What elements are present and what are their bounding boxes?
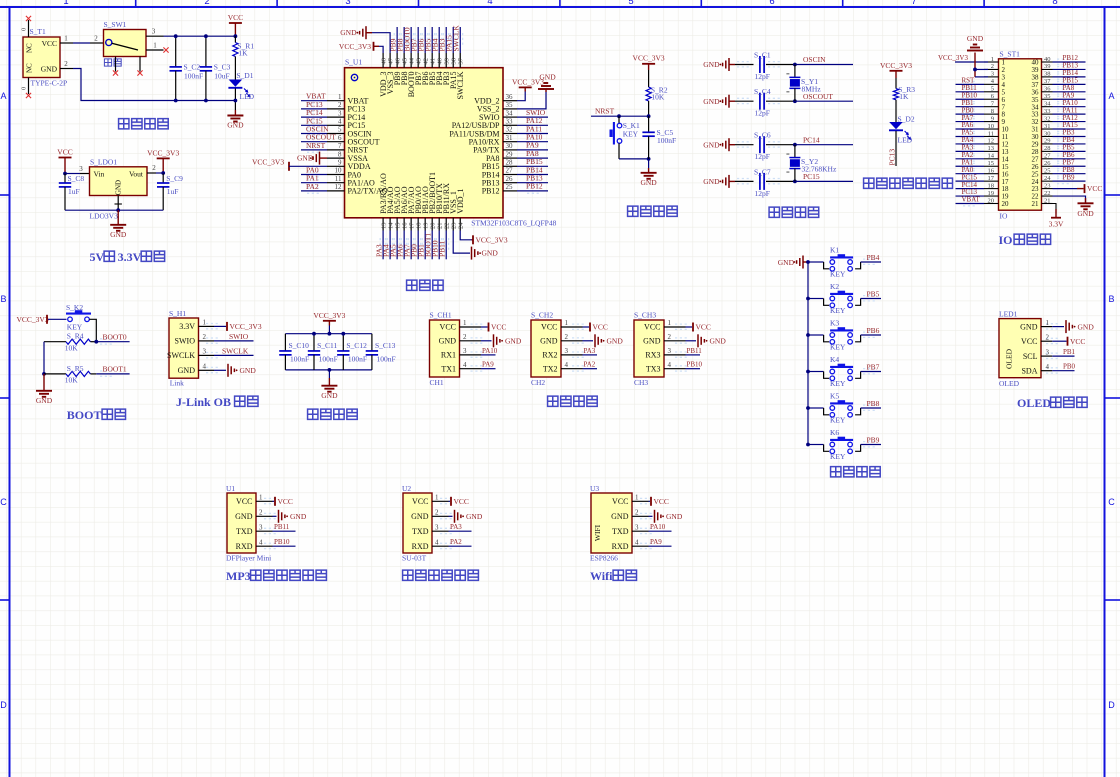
svg-text:12: 12 bbox=[335, 183, 343, 191]
svg-text:NRST: NRST bbox=[306, 141, 326, 150]
svg-text:VCC: VCC bbox=[42, 39, 57, 48]
svg-text:GND: GND bbox=[703, 97, 720, 106]
svg-text:11: 11 bbox=[335, 175, 342, 183]
svg-text:GND: GND bbox=[466, 512, 483, 521]
svg-text:S_C7: S_C7 bbox=[754, 167, 771, 176]
svg-text:1K: 1K bbox=[899, 92, 909, 101]
svg-text:K5: K5 bbox=[830, 392, 839, 401]
svg-text:33: 33 bbox=[1044, 108, 1051, 115]
svg-text:Vout: Vout bbox=[129, 170, 144, 179]
svg-text:25: 25 bbox=[1044, 168, 1051, 175]
svg-text:MP3: MP3 bbox=[226, 569, 251, 583]
svg-text:GND: GND bbox=[439, 337, 457, 346]
svg-text:S_C4: S_C4 bbox=[754, 87, 771, 96]
svg-text:S_U1: S_U1 bbox=[345, 58, 362, 67]
svg-text:VCC_3V3: VCC_3V3 bbox=[230, 322, 262, 331]
svg-text:RX2: RX2 bbox=[542, 351, 557, 360]
svg-text:10uF: 10uF bbox=[214, 72, 229, 81]
svg-text:1: 1 bbox=[338, 93, 342, 101]
svg-text:13: 13 bbox=[380, 223, 387, 230]
svg-text:2: 2 bbox=[565, 333, 569, 341]
svg-text:13: 13 bbox=[988, 145, 995, 152]
svg-text:18: 18 bbox=[988, 182, 995, 189]
svg-text:4: 4 bbox=[259, 538, 263, 546]
svg-text:S_C11: S_C11 bbox=[317, 341, 337, 350]
svg-text:4: 4 bbox=[203, 363, 207, 371]
svg-text:41: 41 bbox=[429, 58, 436, 65]
svg-text:24: 24 bbox=[1044, 175, 1051, 182]
svg-text:VCC: VCC bbox=[440, 323, 456, 332]
svg-text:PB12: PB12 bbox=[526, 182, 543, 191]
svg-text:28: 28 bbox=[1044, 145, 1051, 152]
svg-text:5V: 5V bbox=[90, 250, 105, 264]
svg-text:GND: GND bbox=[640, 178, 657, 187]
svg-text:1uF: 1uF bbox=[167, 187, 179, 196]
svg-text:DFPlayer Mini: DFPlayer Mini bbox=[226, 554, 271, 563]
svg-text:GND: GND bbox=[340, 28, 357, 37]
svg-text:LED1: LED1 bbox=[999, 309, 1018, 318]
svg-text:1uF: 1uF bbox=[68, 187, 80, 196]
svg-text:B: B bbox=[1108, 294, 1114, 304]
svg-text:3: 3 bbox=[152, 28, 156, 36]
svg-text:PA3: PA3 bbox=[450, 523, 462, 531]
svg-text:STM32F103C8T6_LQFP48: STM32F103C8T6_LQFP48 bbox=[471, 219, 556, 228]
svg-text:LDO3V3: LDO3V3 bbox=[90, 212, 119, 221]
svg-text:21: 21 bbox=[1032, 200, 1040, 208]
svg-text:12pF: 12pF bbox=[755, 109, 770, 118]
svg-text:VCC: VCC bbox=[236, 497, 252, 506]
svg-text:TX3: TX3 bbox=[646, 364, 661, 373]
svg-text:12pF: 12pF bbox=[755, 72, 770, 81]
svg-text:PC13: PC13 bbox=[887, 149, 896, 166]
svg-text:37: 37 bbox=[458, 57, 465, 64]
svg-text:GND: GND bbox=[643, 337, 661, 346]
svg-text:GND: GND bbox=[1077, 209, 1094, 218]
svg-text:22: 22 bbox=[1044, 190, 1051, 197]
svg-text:PB6: PB6 bbox=[867, 326, 880, 335]
svg-text:PB12: PB12 bbox=[482, 187, 500, 196]
svg-text:4: 4 bbox=[565, 361, 569, 369]
svg-text:SWCLK: SWCLK bbox=[456, 71, 465, 99]
svg-text:S_CH2: S_CH2 bbox=[531, 311, 553, 320]
svg-text:100nF: 100nF bbox=[377, 355, 396, 364]
svg-text:39: 39 bbox=[1044, 63, 1051, 70]
svg-text:K3: K3 bbox=[830, 319, 839, 328]
svg-text:VCC_3V3: VCC_3V3 bbox=[252, 157, 284, 166]
svg-text:WIFI: WIFI bbox=[593, 524, 602, 541]
svg-text:16: 16 bbox=[401, 222, 408, 229]
svg-text:4: 4 bbox=[435, 538, 439, 546]
svg-text:PA3: PA3 bbox=[584, 347, 596, 355]
svg-text:14: 14 bbox=[387, 222, 394, 229]
svg-text:S_C3: S_C3 bbox=[214, 63, 231, 72]
svg-text:10K: 10K bbox=[65, 376, 79, 385]
svg-text:3: 3 bbox=[991, 71, 994, 78]
svg-text:TXD: TXD bbox=[236, 527, 253, 536]
svg-text:C: C bbox=[0, 497, 7, 507]
svg-text:23: 23 bbox=[1044, 182, 1051, 189]
svg-text:KEY: KEY bbox=[830, 452, 846, 461]
svg-text:PB1: PB1 bbox=[1063, 348, 1076, 356]
svg-text:PA9: PA9 bbox=[482, 361, 494, 369]
svg-text:12pF: 12pF bbox=[755, 152, 770, 161]
svg-text:3: 3 bbox=[79, 165, 83, 173]
svg-text:S_C2: S_C2 bbox=[184, 63, 201, 72]
svg-text:KEY: KEY bbox=[830, 306, 846, 315]
svg-text:2: 2 bbox=[259, 509, 263, 517]
svg-text:40: 40 bbox=[1044, 56, 1051, 63]
svg-text:OLED: OLED bbox=[1005, 348, 1014, 369]
svg-text:26: 26 bbox=[506, 175, 514, 183]
svg-text:OSCIN: OSCIN bbox=[803, 55, 826, 64]
svg-text:15: 15 bbox=[988, 160, 995, 167]
svg-text:34: 34 bbox=[1044, 100, 1051, 107]
svg-text:2: 2 bbox=[435, 509, 439, 517]
svg-text:PA2: PA2 bbox=[450, 538, 462, 546]
svg-text:27: 27 bbox=[506, 167, 514, 175]
svg-text:GND: GND bbox=[321, 391, 338, 400]
svg-text:S_C1: S_C1 bbox=[754, 51, 771, 60]
svg-text:SDA: SDA bbox=[1021, 366, 1037, 375]
svg-text:7: 7 bbox=[911, 0, 916, 7]
svg-text:35: 35 bbox=[1044, 93, 1051, 100]
svg-text:1: 1 bbox=[259, 494, 263, 502]
svg-text:GND: GND bbox=[115, 180, 123, 195]
svg-text:PB11: PB11 bbox=[687, 347, 703, 355]
svg-text:100nF: 100nF bbox=[348, 355, 367, 364]
svg-text:2: 2 bbox=[991, 63, 994, 70]
svg-text:4: 4 bbox=[668, 361, 672, 369]
svg-text:31: 31 bbox=[506, 134, 514, 142]
svg-text:VCC_3V3: VCC_3V3 bbox=[339, 42, 371, 51]
svg-text:36: 36 bbox=[506, 93, 514, 101]
svg-text:1: 1 bbox=[1046, 319, 1050, 327]
svg-text:NC: NC bbox=[26, 63, 34, 73]
svg-text:PB11: PB11 bbox=[438, 240, 447, 257]
svg-text:1: 1 bbox=[668, 319, 672, 327]
svg-text:SWCLK: SWCLK bbox=[167, 351, 195, 360]
svg-text:5: 5 bbox=[338, 126, 342, 134]
svg-text:CH1: CH1 bbox=[430, 378, 444, 387]
svg-text:S_SW1: S_SW1 bbox=[104, 20, 127, 29]
svg-text:GND: GND bbox=[703, 140, 720, 149]
svg-text:S_C12: S_C12 bbox=[346, 341, 367, 350]
svg-text:BOOT: BOOT bbox=[67, 408, 102, 422]
svg-text:0: 0 bbox=[21, 28, 28, 31]
svg-text:GND: GND bbox=[482, 249, 499, 258]
svg-text:21: 21 bbox=[437, 223, 444, 230]
svg-text:32: 32 bbox=[506, 126, 514, 134]
svg-text:PC14: PC14 bbox=[803, 135, 820, 144]
svg-text:2: 2 bbox=[94, 35, 98, 43]
svg-text:S_C10: S_C10 bbox=[289, 341, 310, 350]
svg-text:SWCLK: SWCLK bbox=[452, 25, 461, 52]
svg-text:VCC: VCC bbox=[491, 323, 506, 332]
svg-text:25: 25 bbox=[506, 183, 514, 191]
svg-text:2: 2 bbox=[635, 509, 639, 517]
svg-text:GND: GND bbox=[227, 121, 244, 130]
svg-text:1: 1 bbox=[203, 319, 207, 327]
svg-text:19: 19 bbox=[988, 190, 995, 197]
svg-text:J-Link OB: J-Link OB bbox=[176, 395, 231, 409]
svg-text:3: 3 bbox=[463, 347, 467, 355]
svg-text:33: 33 bbox=[506, 118, 514, 126]
svg-text:10K: 10K bbox=[65, 344, 79, 353]
svg-text:VCC: VCC bbox=[654, 497, 669, 506]
svg-text:IO: IO bbox=[999, 233, 1013, 247]
svg-text:VCC: VCC bbox=[612, 497, 628, 506]
svg-text:31: 31 bbox=[1044, 123, 1051, 130]
svg-text:TYPE-C-2P: TYPE-C-2P bbox=[31, 79, 68, 88]
svg-text:1K: 1K bbox=[238, 49, 248, 58]
svg-text:42: 42 bbox=[422, 58, 429, 65]
svg-text:GND: GND bbox=[703, 177, 720, 186]
svg-text:SCL: SCL bbox=[1023, 352, 1038, 361]
svg-text:VCC: VCC bbox=[412, 497, 428, 506]
svg-text:22: 22 bbox=[444, 223, 451, 230]
svg-text:PB0: PB0 bbox=[1063, 363, 1076, 371]
svg-text:KEY: KEY bbox=[67, 323, 83, 332]
svg-text:U2: U2 bbox=[402, 484, 411, 493]
svg-text:30: 30 bbox=[1044, 130, 1051, 137]
svg-text:100nF: 100nF bbox=[290, 355, 309, 364]
svg-text:KEY: KEY bbox=[623, 130, 639, 139]
svg-text:38: 38 bbox=[1044, 71, 1051, 78]
svg-text:VCC: VCC bbox=[1021, 337, 1037, 346]
svg-text:GND: GND bbox=[110, 230, 127, 239]
svg-text:34: 34 bbox=[506, 109, 514, 117]
svg-text:2: 2 bbox=[463, 333, 467, 341]
svg-text:10K: 10K bbox=[651, 93, 665, 102]
svg-text:KEY: KEY bbox=[830, 416, 846, 425]
svg-text:7: 7 bbox=[338, 142, 342, 150]
svg-text:4: 4 bbox=[1046, 363, 1050, 371]
svg-text:TX1: TX1 bbox=[441, 364, 456, 373]
svg-text:GND: GND bbox=[240, 366, 257, 375]
svg-text:40: 40 bbox=[437, 58, 444, 65]
svg-text:VCC: VCC bbox=[454, 497, 469, 506]
svg-text:S_R4: S_R4 bbox=[67, 332, 84, 341]
svg-text:C: C bbox=[1108, 497, 1115, 507]
svg-text:SU-03T: SU-03T bbox=[402, 554, 427, 563]
svg-text:VBAT: VBAT bbox=[962, 196, 981, 204]
svg-text:38: 38 bbox=[451, 58, 458, 65]
svg-text:SWIO: SWIO bbox=[229, 332, 249, 341]
svg-text:S_LDO1: S_LDO1 bbox=[90, 158, 117, 167]
svg-text:RXD: RXD bbox=[236, 542, 253, 551]
svg-text:PB10: PB10 bbox=[687, 361, 703, 369]
svg-text:20: 20 bbox=[429, 223, 436, 230]
svg-text:VCC: VCC bbox=[541, 323, 557, 332]
svg-text:8: 8 bbox=[1052, 0, 1057, 7]
svg-text:RXD: RXD bbox=[412, 542, 429, 551]
svg-text:D: D bbox=[1108, 700, 1115, 710]
svg-text:PB11: PB11 bbox=[274, 523, 290, 531]
svg-text:3: 3 bbox=[345, 0, 350, 7]
svg-text:48: 48 bbox=[380, 58, 387, 65]
svg-text:S_K2: S_K2 bbox=[66, 303, 83, 312]
svg-text:GND: GND bbox=[703, 60, 720, 69]
svg-text:NC: NC bbox=[26, 43, 34, 53]
svg-text:1: 1 bbox=[153, 42, 157, 50]
svg-text:PB8: PB8 bbox=[867, 399, 880, 408]
svg-text:1: 1 bbox=[64, 35, 68, 43]
svg-text:17: 17 bbox=[408, 222, 415, 229]
svg-text:KEY: KEY bbox=[830, 270, 846, 279]
svg-text:SWCLK: SWCLK bbox=[222, 346, 249, 355]
svg-text:S_CH3: S_CH3 bbox=[634, 311, 656, 320]
svg-text:4: 4 bbox=[487, 0, 492, 7]
svg-text:A: A bbox=[0, 91, 6, 101]
svg-text:35: 35 bbox=[506, 101, 514, 109]
svg-text:3.3V: 3.3V bbox=[1049, 220, 1064, 229]
svg-text:37: 37 bbox=[1044, 78, 1051, 85]
svg-text:43: 43 bbox=[415, 58, 422, 65]
svg-text:32: 32 bbox=[1044, 115, 1051, 122]
svg-text:3: 3 bbox=[203, 348, 207, 356]
svg-text:GND: GND bbox=[36, 396, 53, 405]
svg-text:A: A bbox=[1108, 91, 1114, 101]
svg-text:GND: GND bbox=[1078, 322, 1095, 331]
svg-text:1: 1 bbox=[435, 494, 439, 502]
svg-text:3: 3 bbox=[1046, 348, 1050, 356]
svg-text:39: 39 bbox=[444, 58, 451, 65]
svg-text:GND: GND bbox=[607, 337, 624, 346]
svg-text:11: 11 bbox=[988, 130, 994, 137]
svg-text:2: 2 bbox=[203, 333, 207, 341]
svg-text:4: 4 bbox=[338, 118, 342, 126]
svg-text:IO: IO bbox=[1000, 212, 1008, 221]
svg-text:15: 15 bbox=[394, 223, 401, 230]
svg-text:LED: LED bbox=[898, 136, 913, 145]
svg-text:SWIO: SWIO bbox=[175, 337, 196, 346]
svg-text:3.3V: 3.3V bbox=[179, 322, 195, 331]
svg-text:GND: GND bbox=[1020, 322, 1038, 331]
svg-text:GND: GND bbox=[41, 65, 58, 74]
svg-text:OLED: OLED bbox=[999, 379, 1020, 388]
svg-text:1: 1 bbox=[991, 56, 994, 63]
svg-text:K4: K4 bbox=[830, 355, 839, 364]
svg-text:9: 9 bbox=[991, 115, 994, 122]
svg-text:17: 17 bbox=[988, 175, 995, 182]
svg-text:28: 28 bbox=[506, 159, 514, 167]
svg-text:3.3V: 3.3V bbox=[118, 250, 142, 264]
svg-text:PA2: PA2 bbox=[584, 361, 596, 369]
svg-text:GND: GND bbox=[710, 337, 727, 346]
svg-text:PA10: PA10 bbox=[482, 347, 498, 355]
svg-text:47: 47 bbox=[387, 57, 394, 64]
svg-text:VCC_3V3: VCC_3V3 bbox=[476, 235, 508, 244]
svg-text:TX2: TX2 bbox=[543, 364, 558, 373]
svg-text:3: 3 bbox=[259, 523, 263, 531]
svg-text:2: 2 bbox=[152, 164, 156, 172]
svg-text:PB7: PB7 bbox=[867, 362, 880, 371]
svg-text:3: 3 bbox=[668, 347, 672, 355]
svg-text:LED: LED bbox=[240, 92, 255, 101]
svg-text:VCC: VCC bbox=[696, 323, 711, 332]
svg-text:GND: GND bbox=[778, 258, 795, 267]
svg-text:36: 36 bbox=[1044, 86, 1051, 93]
svg-text:14: 14 bbox=[988, 153, 995, 160]
svg-text:100nF: 100nF bbox=[319, 355, 338, 364]
svg-text:12: 12 bbox=[988, 138, 995, 145]
svg-text:BOOT1: BOOT1 bbox=[103, 365, 127, 374]
svg-text:4: 4 bbox=[635, 538, 639, 546]
svg-text:PB10: PB10 bbox=[274, 538, 290, 546]
svg-text:44: 44 bbox=[408, 57, 415, 64]
svg-text:5: 5 bbox=[628, 0, 633, 7]
svg-text:CH2: CH2 bbox=[531, 378, 545, 387]
svg-text:GND: GND bbox=[611, 512, 629, 521]
svg-text:GND: GND bbox=[178, 366, 196, 375]
svg-text:VCC: VCC bbox=[644, 323, 660, 332]
svg-text:30: 30 bbox=[506, 142, 514, 150]
svg-text:VCC: VCC bbox=[1070, 337, 1085, 346]
svg-text:2: 2 bbox=[338, 101, 342, 109]
svg-text:46: 46 bbox=[394, 57, 401, 64]
svg-text:NRST: NRST bbox=[595, 107, 615, 116]
svg-text:RX3: RX3 bbox=[645, 351, 660, 360]
svg-text:6: 6 bbox=[769, 0, 774, 7]
svg-text:2: 2 bbox=[1046, 333, 1050, 341]
svg-text:5: 5 bbox=[991, 86, 994, 93]
svg-text:TXD: TXD bbox=[412, 527, 429, 536]
svg-text:GND: GND bbox=[411, 512, 429, 521]
svg-text:2: 2 bbox=[64, 60, 68, 68]
svg-text:32.768KHz: 32.768KHz bbox=[802, 165, 837, 174]
svg-text:GND: GND bbox=[539, 73, 556, 82]
svg-text:Link: Link bbox=[170, 379, 184, 388]
svg-text:S_H1: S_H1 bbox=[169, 309, 186, 318]
svg-text:S_C6: S_C6 bbox=[754, 131, 771, 140]
svg-text:VCC_3V3: VCC_3V3 bbox=[880, 61, 912, 70]
svg-text:U1: U1 bbox=[226, 484, 235, 493]
svg-text:1: 1 bbox=[463, 319, 467, 327]
svg-text:K1: K1 bbox=[830, 246, 839, 255]
svg-text:1: 1 bbox=[565, 319, 569, 327]
svg-text:2: 2 bbox=[204, 0, 209, 7]
svg-text:RX1: RX1 bbox=[441, 351, 456, 360]
svg-text:TXD: TXD bbox=[612, 527, 629, 536]
svg-text:PA9: PA9 bbox=[650, 538, 662, 546]
svg-text:KEY: KEY bbox=[830, 343, 846, 352]
svg-text:VCC: VCC bbox=[57, 148, 72, 157]
svg-text:VCC_3V3: VCC_3V3 bbox=[938, 54, 968, 62]
svg-text:OLED: OLED bbox=[1017, 396, 1051, 410]
svg-text:10: 10 bbox=[988, 123, 995, 130]
svg-text:K6: K6 bbox=[830, 428, 839, 437]
svg-text:U3: U3 bbox=[590, 484, 599, 493]
svg-text:3: 3 bbox=[635, 523, 639, 531]
svg-text:4: 4 bbox=[463, 361, 467, 369]
svg-text:VCC_3V3: VCC_3V3 bbox=[313, 311, 345, 320]
svg-text:PB4: PB4 bbox=[867, 253, 880, 262]
svg-text:Wifi: Wifi bbox=[590, 569, 613, 583]
svg-text:GND: GND bbox=[540, 337, 558, 346]
svg-text:8: 8 bbox=[338, 150, 342, 158]
svg-text:PB5: PB5 bbox=[867, 289, 880, 298]
svg-text:GND: GND bbox=[290, 512, 307, 521]
svg-text:S_T1: S_T1 bbox=[30, 27, 47, 36]
svg-text:D: D bbox=[0, 700, 7, 710]
svg-text:VCC: VCC bbox=[278, 497, 293, 506]
svg-text:3: 3 bbox=[338, 109, 342, 117]
svg-text:3: 3 bbox=[565, 347, 569, 355]
svg-text:GND: GND bbox=[505, 337, 522, 346]
svg-text:1: 1 bbox=[63, 0, 68, 7]
svg-text:20: 20 bbox=[988, 197, 995, 204]
svg-text:29: 29 bbox=[506, 150, 514, 158]
